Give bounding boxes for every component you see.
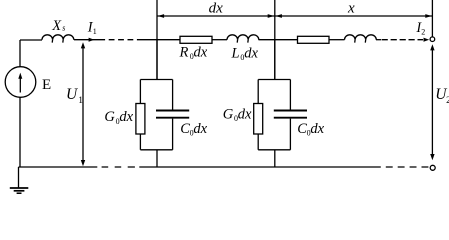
svg-text:E: E — [42, 77, 51, 93]
svg-text:dx: dx — [119, 109, 133, 125]
svg-text:G: G — [223, 106, 234, 122]
svg-text:dx: dx — [310, 121, 324, 137]
svg-text:L: L — [231, 46, 240, 62]
svg-text:1: 1 — [78, 96, 83, 106]
svg-text:dx: dx — [244, 46, 258, 62]
svg-text:s: s — [62, 24, 65, 33]
svg-text:U: U — [66, 86, 79, 103]
svg-text:dx: dx — [209, 0, 224, 16]
svg-text:1: 1 — [93, 27, 97, 36]
svg-text:dx: dx — [194, 45, 208, 61]
svg-text:x: x — [347, 1, 355, 17]
svg-text:2: 2 — [421, 27, 425, 36]
svg-text:dx: dx — [193, 121, 207, 137]
svg-text:R: R — [179, 45, 189, 61]
svg-text:X: X — [51, 18, 62, 34]
svg-text:G: G — [104, 109, 115, 125]
svg-text:dx: dx — [238, 106, 252, 122]
